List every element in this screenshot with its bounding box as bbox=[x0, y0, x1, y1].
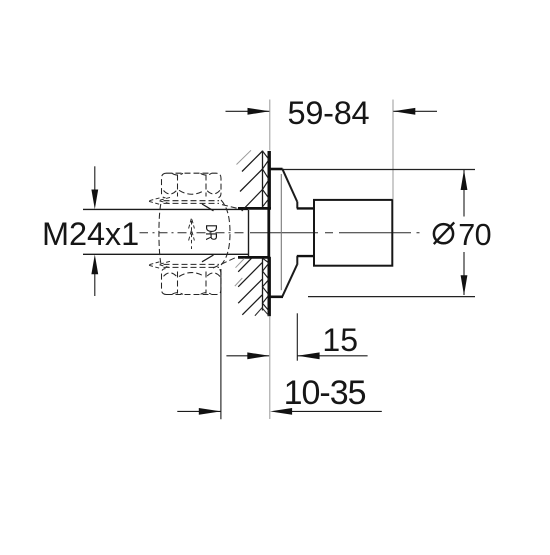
svg-text:10-35: 10-35 bbox=[284, 374, 366, 412]
svg-text:70: 70 bbox=[458, 218, 491, 252]
svg-text:M24x1: M24x1 bbox=[42, 216, 139, 252]
svg-text:59-84: 59-84 bbox=[288, 95, 370, 131]
svg-text:15: 15 bbox=[322, 322, 358, 358]
svg-text:DR: DR bbox=[202, 224, 219, 240]
